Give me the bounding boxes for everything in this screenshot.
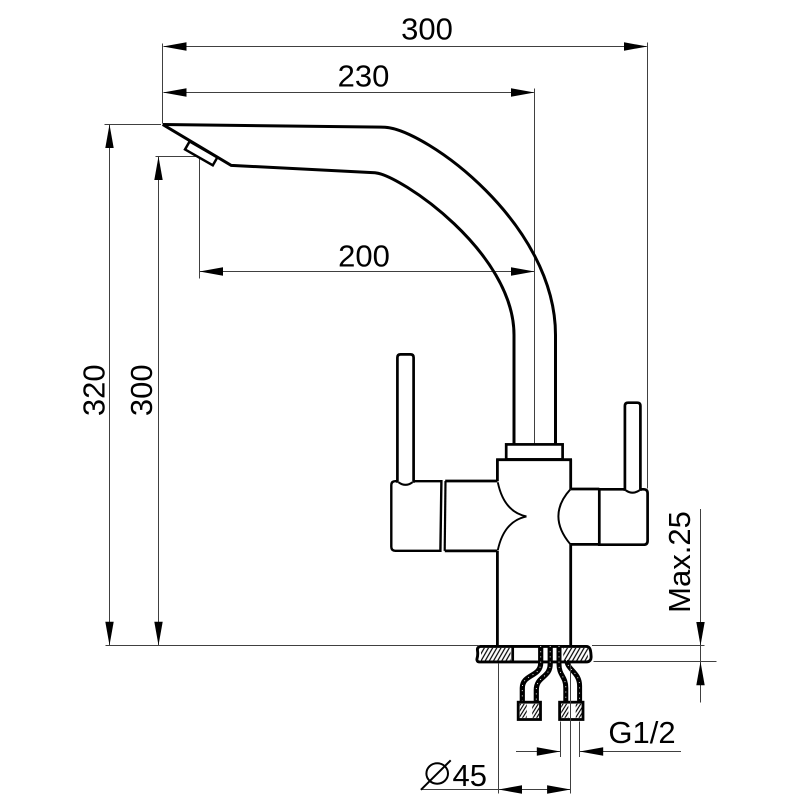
hose right wall1 bbox=[559, 646, 566, 704]
extension line: counter baseline bbox=[106, 645, 479, 647]
dimension line 320 vertical bbox=[109, 125, 111, 646]
hose right wall2 bbox=[567, 660, 580, 704]
right connection top and bottom edges bbox=[570, 489, 599, 544]
right connector hatch bbox=[561, 704, 568, 718]
right handle body bbox=[599, 489, 647, 544]
diameter symbol circle bbox=[426, 763, 448, 783]
right hose connector bbox=[560, 702, 583, 719]
dimension line G1/2 bbox=[516, 751, 681, 753]
extension line: spout tip vertical bbox=[162, 44, 164, 124]
arrow 300 right bbox=[624, 42, 648, 50]
svg-text:G1/2: G1/2 bbox=[608, 715, 675, 750]
extension lines G1/2 bbox=[561, 722, 580, 758]
arrow 230 left bbox=[163, 88, 187, 96]
dimension line 300 horizontal bbox=[164, 46, 647, 48]
left handle body bbox=[391, 481, 441, 551]
left connection top and bottom edges bbox=[445, 481, 498, 551]
arrow Max25 down bbox=[696, 622, 704, 646]
left connection divider line bbox=[444, 481, 447, 551]
right handle lever bbox=[625, 403, 641, 491]
arrow 300 left bbox=[163, 42, 187, 50]
body left edge segments bbox=[496, 459, 499, 645]
svg-text:300: 300 bbox=[124, 364, 159, 416]
arrow G12 right-side pointing left bbox=[580, 747, 604, 755]
extension line: 300 right bbox=[647, 43, 649, 489]
dimension line diameter 45 bbox=[421, 789, 571, 791]
aerator on spout bbox=[185, 141, 217, 165]
left lever boss arc bbox=[399, 482, 413, 485]
flange hatch left bbox=[481, 648, 511, 661]
arrow 320 top bbox=[105, 125, 113, 149]
svg-text:45: 45 bbox=[453, 758, 487, 793]
extension line: spout tip horizontal bbox=[105, 124, 162, 126]
arrow 320 bottom bbox=[105, 622, 113, 646]
hose left wall1 bbox=[522, 646, 540, 704]
flange hatch right bbox=[563, 648, 588, 661]
spout inner curve bbox=[163, 125, 514, 445]
svg-text:230: 230 bbox=[338, 58, 390, 93]
right lever boss arc bbox=[626, 490, 640, 492]
left hose connector bbox=[518, 702, 540, 719]
diameter symbol slash bbox=[421, 760, 451, 790]
arrow 200 right bbox=[511, 267, 535, 275]
base flange bbox=[477, 646, 591, 662]
extension lines diameter 45 bbox=[499, 663, 571, 794]
arrow d45 pointing right bbox=[547, 785, 571, 793]
arrow 230 right bbox=[511, 88, 535, 96]
flange window divider bbox=[511, 647, 514, 662]
svg-text:320: 320 bbox=[76, 364, 111, 416]
arrow 300v top bbox=[154, 157, 162, 181]
dimension line 230 bbox=[164, 92, 534, 94]
extension line: 230 right (through spout) bbox=[534, 89, 536, 444]
hose left wall2 bbox=[536, 646, 550, 704]
extension line: aerator level bbox=[156, 157, 200, 279]
arrow 200 left bbox=[200, 267, 224, 275]
left connector hatch bbox=[520, 704, 527, 718]
collar under spout bbox=[506, 444, 562, 459]
dimension line Max.25 vertical bbox=[700, 509, 702, 703]
arrow G12 left-side pointing right bbox=[537, 747, 561, 755]
arrow Max25 up bbox=[696, 662, 704, 686]
right fillet curve bbox=[558, 489, 570, 544]
dimension line 200 bbox=[200, 271, 535, 273]
body top edge bbox=[496, 458, 572, 461]
svg-text:Max.25: Max.25 bbox=[662, 511, 697, 613]
arrow 300v bottom bbox=[154, 622, 162, 646]
svg-text:200: 200 bbox=[338, 238, 390, 273]
arrow d45 pointing left bbox=[499, 785, 523, 793]
hose texture dots bbox=[522, 646, 579, 704]
dimension line 300 vertical bbox=[158, 157, 160, 646]
left fillet curve lower bbox=[498, 516, 527, 550]
left fillet curve upper bbox=[498, 482, 527, 516]
svg-text:300: 300 bbox=[401, 12, 453, 47]
spout outer curve bbox=[163, 125, 556, 445]
extension lines: Max.25 bbox=[592, 646, 717, 662]
body right edge segments bbox=[569, 459, 572, 645]
body white fill bbox=[497, 459, 570, 645]
left handle lever bbox=[397, 354, 413, 482]
